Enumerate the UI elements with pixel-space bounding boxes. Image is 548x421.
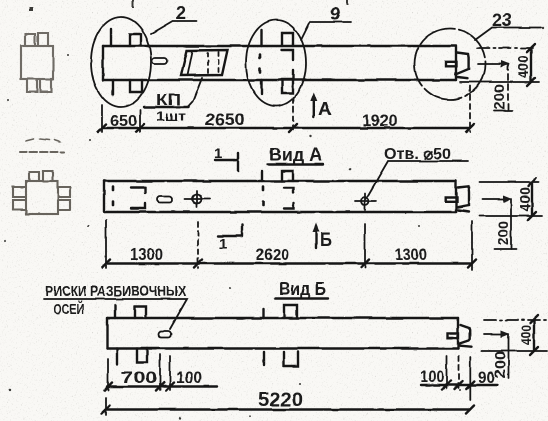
svg-text:ОСЕЙ: ОСЕЙ: [54, 300, 84, 318]
end tenon (view B): [448, 325, 472, 347]
svg-text:100: 100: [420, 367, 444, 386]
leader KP / 1sht: [144, 78, 202, 124]
section mark 1 upper: [214, 145, 238, 171]
hole crosshair: [355, 193, 376, 210]
left end marks (view A): [113, 187, 145, 209]
detail circle for node 23 (column end): [415, 29, 486, 100]
svg-text:200: 200: [495, 221, 512, 245]
svg-text:5220: 5220: [258, 390, 303, 411]
axis target mark: [185, 191, 210, 207]
leader and label 23: [475, 10, 541, 40]
svg-text:1300: 1300: [395, 245, 427, 264]
svg-text:Вид Б: Вид Б: [279, 279, 326, 299]
right side dims of view B: 400 and 200: [481, 315, 548, 378]
svg-text:2650: 2650: [205, 110, 245, 129]
faint cross-section sketch mid-left: [13, 139, 70, 214]
column body bar (view B): [108, 318, 459, 349]
dimension group right: 100 / 90: [420, 356, 497, 400]
svg-text:РИСКИ РАЗБИВОЧНЫХ: РИСКИ РАЗБИВОЧНЫХ: [45, 283, 186, 300]
svg-text:700: 700: [121, 368, 157, 387]
detail ellipse for node 9 (middle joint): [246, 20, 306, 106]
stubs above bar (view B): [115, 305, 297, 318]
leader and label 9: [301, 4, 351, 40]
slot (view B): [158, 331, 171, 337]
svg-text:1: 1: [214, 145, 222, 162]
label riski razbivochnykh osey: [44, 283, 187, 329]
svg-text:400: 400: [517, 187, 534, 212]
svg-text:Вид А: Вид А: [269, 145, 322, 165]
svg-text:1: 1: [219, 236, 227, 253]
leader and label 2: [151, 3, 197, 34]
svg-text:23: 23: [492, 10, 512, 30]
title Vid B: [275, 279, 328, 299]
svg-text:Б: Б: [320, 230, 332, 251]
svg-text:400: 400: [515, 55, 532, 78]
svg-text:100: 100: [176, 368, 202, 387]
slot (fixture hole) in plan: [152, 58, 167, 64]
view arrow B: [313, 223, 333, 251]
end tenon (view A): [446, 186, 469, 211]
svg-text:200: 200: [491, 84, 508, 110]
rebar mark and embedded plate in left joint: [111, 29, 142, 95]
hole label Otv d50 with leader: [366, 146, 468, 199]
svg-text:200: 200: [492, 351, 509, 378]
column body bar (view A): [104, 181, 456, 212]
section mark 1 lower: [218, 224, 242, 253]
dimension row: 1300 / 2620 / 1300: [102, 220, 476, 270]
end tenon detail: [446, 53, 469, 79]
svg-text:1300: 1300: [130, 245, 163, 264]
svg-text:А: А: [318, 99, 332, 120]
detail ellipse for node 2 (left joint): [91, 17, 151, 107]
right joint marks (view A): [262, 171, 294, 209]
svg-text:9: 9: [330, 4, 340, 24]
overall dimension 5220: [102, 390, 474, 415]
rebar marks and brackets in middle joint: [260, 30, 293, 94]
right side dims of view A: 400 and 200: [480, 178, 542, 249]
slot (view A): [157, 196, 172, 202]
svg-text:400: 400: [518, 325, 535, 345]
svg-text:1шт: 1шт: [156, 108, 186, 124]
faint cross-section sketch top-left: [21, 33, 53, 92]
dimension group left: 700 / 100: [104, 354, 217, 391]
svg-text:2: 2: [176, 3, 186, 23]
stubs below bar (view B): [117, 349, 298, 367]
right side dims of plan: 400 and 200: [460, 44, 539, 111]
KP plate parallelogram with dashed lines: [181, 50, 228, 76]
svg-text:650: 650: [110, 113, 137, 130]
dimension row: 650 / 2650 / 1920: [98, 86, 474, 132]
column body bar (plan): [103, 46, 456, 80]
svg-text:2620: 2620: [256, 245, 289, 264]
view arrow A: [310, 92, 332, 120]
svg-text:1920: 1920: [362, 111, 397, 130]
title Vid A: [267, 145, 323, 165]
